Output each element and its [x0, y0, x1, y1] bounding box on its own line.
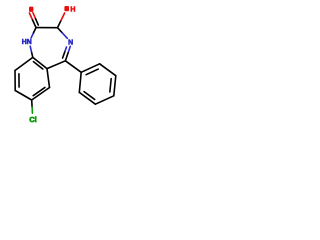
svg-text:H: H — [70, 7, 75, 14]
svg-text:HN: HN — [22, 39, 32, 46]
svg-text:N: N — [68, 39, 73, 46]
svg-text:Cl: Cl — [29, 115, 37, 124]
